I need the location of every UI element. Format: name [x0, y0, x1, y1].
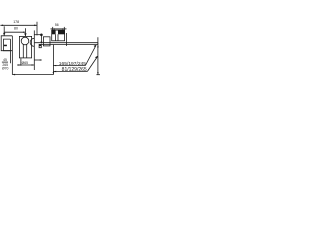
svg-text:Ø65: Ø65 [22, 61, 29, 65]
dim line 65 [17, 64, 34, 66]
body inner line 1 [55, 34, 57, 41]
leader line row1 to spout tip [85, 45, 96, 65]
wall line 2 [65, 33, 67, 46]
handle slot left [22, 44, 24, 58]
svg-text:Ø70: Ø70 [2, 66, 9, 70]
svg-text:56: 56 [55, 23, 59, 27]
leader line on wall [34, 34, 40, 36]
right vertical dim line [97, 37, 99, 74]
vertical dim from spout to bottom [52, 45, 54, 75]
extension ticks 56 [52, 27, 54, 30]
dim line 56 [51, 28, 67, 30]
underline row 2 [53, 71, 87, 73]
technical dimension drawing of wall-mounted mixer tap [0, 0, 100, 100]
wall line [33, 30, 35, 70]
spout front inner box [4, 39, 11, 51]
extension line right of 80 [24, 28, 26, 36]
extension line right of 178 [36, 22, 38, 36]
inner right edge extended [9, 39, 11, 63]
spout front outer box [1, 36, 12, 51]
leader dot [40, 34, 43, 37]
underline row 1 [53, 65, 85, 67]
body connector block right [58, 30, 65, 34]
bottom dim line [12, 74, 53, 76]
concealed body outline [52, 30, 65, 41]
handle knob side view circle [30, 38, 34, 46]
extension line under plate [20, 58, 22, 65]
body connector block left [52, 30, 56, 34]
leader line row2 to dim line [87, 57, 97, 72]
handle escutcheon plate [19, 36, 31, 58]
spout top line [35, 42, 98, 44]
down arrow at left end of 80 [3, 26, 5, 35]
dim line 80 [4, 31, 25, 33]
handle slot right [26, 44, 28, 58]
svg-text:81/129/265: 81/129/265 [62, 67, 87, 73]
leader drop line [40, 35, 42, 42]
dim line 45 [2, 61, 8, 63]
spout bottom line [39, 44, 98, 46]
svg-text:80: 80 [14, 26, 18, 30]
outer right edge extended [11, 36, 13, 75]
outlet cylinder [39, 45, 41, 48]
handle circle [21, 37, 29, 45]
svg-text:178: 178 [13, 20, 19, 24]
spout tip cap [97, 43, 99, 45]
escutcheon square side view [43, 37, 50, 46]
pointer under square [34, 59, 41, 61]
svg-text:45: 45 [3, 58, 7, 62]
aerator dash [4, 45, 7, 47]
dim line 178 [0, 24, 37, 26]
bottom reference stub [96, 74, 100, 76]
body inner line 2 [57, 34, 59, 41]
